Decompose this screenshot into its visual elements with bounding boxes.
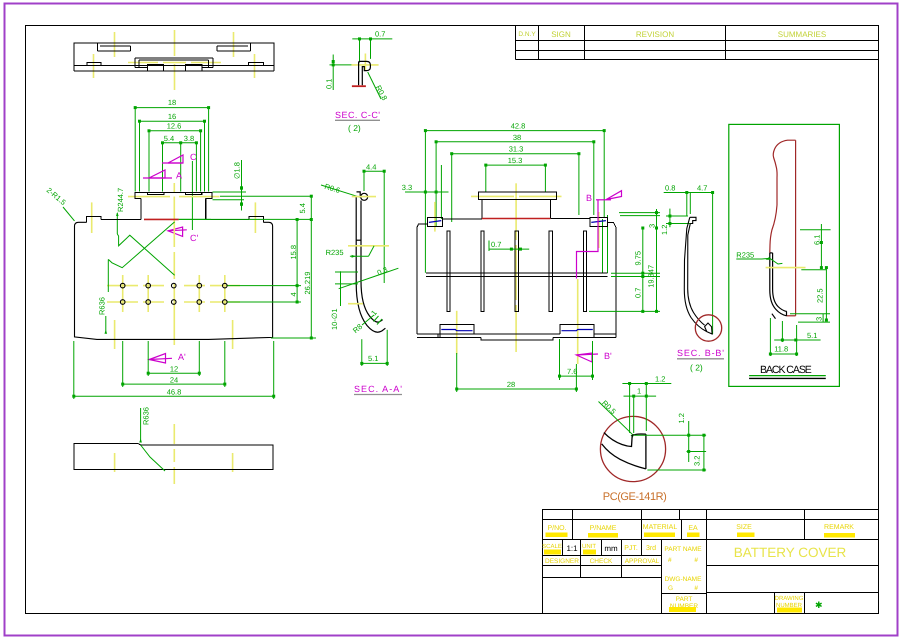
red base line bbox=[352, 85, 366, 87]
5.1 dim bbox=[362, 330, 387, 366]
bottom dims 12 / 24 / 46.8 bbox=[74, 341, 274, 399]
R244.7 label bbox=[116, 188, 125, 234]
body bbox=[75, 222, 273, 339]
left end cap bbox=[428, 217, 443, 226]
feet bbox=[440, 324, 474, 337]
small tabs bbox=[147, 65, 163, 71]
right shelf tab bbox=[249, 62, 264, 65]
svg-text:A': A' bbox=[178, 352, 186, 362]
svg-text:19.847: 19.847 bbox=[646, 265, 655, 288]
svg-text:#: # bbox=[694, 585, 698, 592]
center assembly bbox=[135, 57, 213, 59]
svg-text:( 2): ( 2) bbox=[690, 363, 703, 373]
svg-text:4.7: 4.7 bbox=[697, 184, 707, 193]
B' arrow bbox=[576, 351, 612, 362]
svg-text:SUMMARIES: SUMMARIES bbox=[778, 30, 826, 39]
svg-text:PART NAME: PART NAME bbox=[664, 546, 702, 553]
svg-text:R244.7: R244.7 bbox=[116, 188, 125, 212]
front view centerlines bbox=[92, 183, 256, 349]
R636 label (bottom view) bbox=[139, 407, 165, 471]
R636 label (front view) bbox=[98, 297, 108, 334]
dim 16 bbox=[140, 120, 205, 122]
svg-text:PJT.: PJT. bbox=[624, 545, 638, 552]
neck bbox=[140, 199, 142, 220]
svg-text:MATERIAL: MATERIAL bbox=[643, 524, 678, 531]
22.5 dim bbox=[825, 268, 827, 320]
svg-text:APPROVAL: APPROVAL bbox=[625, 558, 660, 565]
svg-text:UNIT: UNIT bbox=[582, 543, 596, 550]
svg-text:3.8: 3.8 bbox=[184, 134, 194, 143]
R0.8 leader bbox=[368, 72, 381, 99]
svg-text:PART: PART bbox=[676, 596, 693, 603]
right side dims 3 / 9.75 / 19.847 / 0.7 bbox=[589, 209, 660, 311]
svg-text:G: G bbox=[668, 585, 673, 592]
right side rows bbox=[707, 565, 879, 567]
svg-text:1: 1 bbox=[637, 387, 641, 396]
left ear bbox=[86, 217, 101, 223]
svg-text:38: 38 bbox=[513, 133, 521, 142]
middle view outline bbox=[417, 192, 616, 340]
blue lines bbox=[429, 221, 606, 331]
shoulders bbox=[101, 218, 141, 220]
svg-text:42.8: 42.8 bbox=[511, 122, 526, 131]
top edges bbox=[442, 218, 482, 220]
R8 crossing ticks bbox=[374, 316, 379, 322]
section outline bbox=[356, 192, 385, 332]
svg-text:REMARK: REMARK bbox=[824, 524, 854, 531]
svg-text:5.4: 5.4 bbox=[298, 203, 307, 213]
section A arrow (magenta) bbox=[143, 170, 182, 181]
svg-text:R235: R235 bbox=[736, 251, 754, 260]
svg-text:D.N.Y: D.N.Y bbox=[518, 31, 536, 38]
red recess line bbox=[482, 218, 550, 220]
section C' arrow bbox=[168, 227, 198, 243]
green shoulder extension bbox=[179, 218, 211, 220]
svg-text:SEC. C-C': SEC. C-C' bbox=[335, 110, 380, 120]
svg-text:0.7: 0.7 bbox=[634, 288, 643, 298]
3.3 dim line bbox=[405, 191, 449, 193]
7.6 dim bbox=[560, 339, 593, 380]
B-B cut line magenta bbox=[577, 200, 599, 279]
A' arrow bbox=[149, 352, 186, 363]
svg-text:BACK CASE: BACK CASE bbox=[760, 364, 812, 376]
yellow centerline bbox=[351, 64, 378, 66]
top-right notch bbox=[250, 43, 252, 51]
svg-text:#: # bbox=[668, 557, 672, 564]
svg-text:6.1: 6.1 bbox=[813, 235, 822, 245]
svg-text:#: # bbox=[694, 557, 698, 564]
scale row bbox=[543, 555, 662, 557]
svg-text:3: 3 bbox=[648, 224, 657, 228]
svg-text:0.8: 0.8 bbox=[665, 184, 675, 193]
svg-text:C: C bbox=[190, 152, 197, 162]
28 dim bbox=[457, 353, 577, 392]
svg-text:SCALE: SCALE bbox=[542, 543, 562, 550]
3 dim bbox=[790, 314, 830, 322]
svg-text:REVISION: REVISION bbox=[636, 30, 674, 39]
top view centerlines bbox=[94, 30, 255, 90]
yellow centerline bbox=[766, 267, 806, 269]
svg-text:15.8: 15.8 bbox=[289, 245, 298, 260]
svg-text:7.6: 7.6 bbox=[567, 367, 577, 376]
top-left notch bbox=[96, 43, 98, 51]
bottom bbox=[417, 334, 438, 338]
1.2 dim bbox=[666, 209, 692, 228]
dim 5.4 / 3.8 bbox=[163, 142, 197, 144]
svg-text:26.219: 26.219 bbox=[303, 272, 312, 295]
svg-text:3: 3 bbox=[815, 317, 824, 321]
svg-text:28: 28 bbox=[507, 380, 515, 389]
left shelf tab bbox=[87, 62, 101, 65]
right ear bbox=[249, 217, 264, 223]
svg-text:DRAWING: DRAWING bbox=[775, 595, 804, 602]
red detail circle bbox=[695, 315, 721, 341]
4.4 dim bbox=[364, 171, 384, 283]
top cap bbox=[478, 192, 556, 199]
black section curves bbox=[602, 433, 646, 469]
top cap bbox=[135, 192, 212, 198]
svg-text:SIGN: SIGN bbox=[551, 30, 571, 39]
svg-text:SEC. B-B': SEC. B-B' bbox=[677, 348, 724, 358]
svg-text:1.2: 1.2 bbox=[677, 413, 686, 423]
phi 1.8 dim bbox=[213, 160, 312, 211]
0.8 / 4.7 dims bbox=[664, 193, 714, 335]
right end cap bbox=[590, 217, 607, 226]
cross-section shape bbox=[359, 61, 371, 85]
revision table bbox=[516, 26, 879, 60]
svg-text:BATTERY COVER: BATTERY COVER bbox=[734, 545, 847, 560]
svg-text:24: 24 bbox=[170, 376, 178, 385]
svg-text:16: 16 bbox=[168, 112, 176, 121]
hole centerlines bbox=[107, 275, 240, 312]
svg-text:R636: R636 bbox=[142, 407, 151, 425]
1.2 top dim bbox=[622, 384, 671, 434]
svg-text:mm: mm bbox=[604, 544, 618, 553]
svg-text:✱: ✱ bbox=[815, 600, 823, 610]
red recess line under neck bbox=[144, 218, 179, 220]
svg-text:15.3: 15.3 bbox=[508, 156, 523, 165]
svg-text:R636: R636 bbox=[98, 297, 107, 315]
top line over sec C-C (frame-extension) bbox=[325, 30, 393, 134]
0.7 rib dim bbox=[489, 241, 529, 252]
svg-text:11.8: 11.8 bbox=[774, 345, 788, 354]
svg-text:3.3: 3.3 bbox=[402, 183, 412, 192]
neck bbox=[481, 199, 483, 218]
holes (5 cols x 2 rows) bbox=[120, 283, 227, 304]
6.1 dim bbox=[800, 224, 831, 270]
svg-text:DWG-NAME: DWG-NAME bbox=[665, 576, 702, 583]
svg-text:3.2: 3.2 bbox=[693, 456, 702, 466]
1 dim bbox=[624, 396, 657, 433]
0.7 dim bbox=[330, 39, 393, 90]
dim 12.6 bbox=[149, 130, 201, 132]
svg-text:P/NO.: P/NO. bbox=[547, 524, 566, 532]
svg-text:( 2): ( 2) bbox=[348, 123, 361, 133]
black section part bbox=[770, 253, 787, 319]
green box bbox=[729, 124, 840, 386]
svg-text:EA: EA bbox=[688, 525, 698, 532]
svg-text:∅1.8: ∅1.8 bbox=[233, 162, 242, 179]
C-C cut line bbox=[191, 161, 193, 230]
2-R1.5 label bbox=[45, 186, 75, 221]
svg-text:P/NAME: P/NAME bbox=[590, 524, 617, 532]
svg-text:C': C' bbox=[190, 233, 198, 243]
red circle bbox=[600, 416, 665, 481]
section outline bbox=[684, 217, 712, 334]
svg-text:12.6: 12.6 bbox=[167, 122, 182, 131]
red profile bbox=[770, 140, 796, 253]
svg-text:DESIGNER: DESIGNER bbox=[545, 558, 579, 565]
dim stack 42.8/38/31.3/15.3 bbox=[405, 131, 608, 273]
svg-text:A: A bbox=[176, 171, 182, 181]
svg-text:5.4: 5.4 bbox=[164, 134, 174, 143]
TITLE BLOCK bbox=[543, 510, 879, 614]
svg-text:0.7: 0.7 bbox=[375, 30, 385, 39]
top view outline bbox=[74, 43, 274, 71]
dim 18 bbox=[135, 107, 208, 109]
svg-text:1.2: 1.2 bbox=[655, 375, 665, 384]
svg-text:0.7: 0.7 bbox=[491, 240, 501, 249]
11.8 dim bbox=[770, 318, 796, 356]
svg-text:1:1: 1:1 bbox=[566, 544, 578, 553]
svg-text:31.3: 31.3 bbox=[509, 145, 524, 154]
svg-text:46.8: 46.8 bbox=[167, 388, 182, 397]
svg-text:5.1: 5.1 bbox=[807, 331, 817, 340]
svg-text:22.5: 22.5 bbox=[816, 288, 825, 303]
svg-text:B': B' bbox=[604, 351, 612, 361]
right dims 1.2 / 3.2 bbox=[634, 421, 706, 470]
section C arrow (magenta) bbox=[162, 152, 197, 163]
svg-text:10-∅1: 10-∅1 bbox=[330, 308, 339, 330]
right side dims 5.4 / 15.8 / 4 / 26.219 bbox=[179, 196, 316, 338]
shelf bbox=[426, 272, 607, 274]
front view outline bbox=[75, 192, 273, 339]
5.1 dim bbox=[774, 321, 820, 342]
B arrow bbox=[586, 191, 622, 203]
svg-text:3rd: 3rd bbox=[646, 544, 656, 552]
svg-text:18: 18 bbox=[168, 98, 176, 107]
svg-text:SIZE: SIZE bbox=[736, 524, 752, 531]
yellow centerlines bbox=[348, 197, 389, 304]
svg-text:0.1: 0.1 bbox=[325, 79, 334, 89]
centerlines bbox=[435, 183, 599, 364]
10-phi1 bbox=[335, 271, 358, 306]
svg-text:B: B bbox=[586, 193, 592, 203]
svg-text:PC(GE-141R): PC(GE-141R) bbox=[603, 491, 667, 503]
green break zigzags bbox=[108, 222, 174, 292]
svg-text:12: 12 bbox=[170, 365, 178, 374]
svg-text:4: 4 bbox=[289, 292, 298, 296]
ribs bbox=[447, 231, 587, 312]
svg-text:5.1: 5.1 bbox=[368, 354, 378, 363]
svg-text:4.4: 4.4 bbox=[366, 163, 376, 172]
svg-text:CHECK: CHECK bbox=[590, 558, 613, 565]
svg-text:R235: R235 bbox=[326, 248, 344, 257]
svg-text:9.75: 9.75 bbox=[634, 251, 643, 266]
svg-text:1.2: 1.2 bbox=[660, 225, 669, 235]
